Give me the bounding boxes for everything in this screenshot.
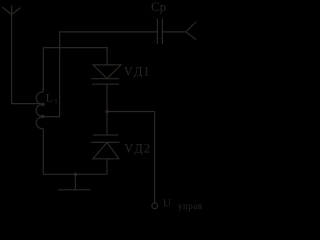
svg-text:VД2: VД2 bbox=[124, 142, 151, 156]
svg-text:VД1: VД1 bbox=[124, 64, 151, 78]
svg-text:Ср: Ср bbox=[151, 0, 166, 14]
